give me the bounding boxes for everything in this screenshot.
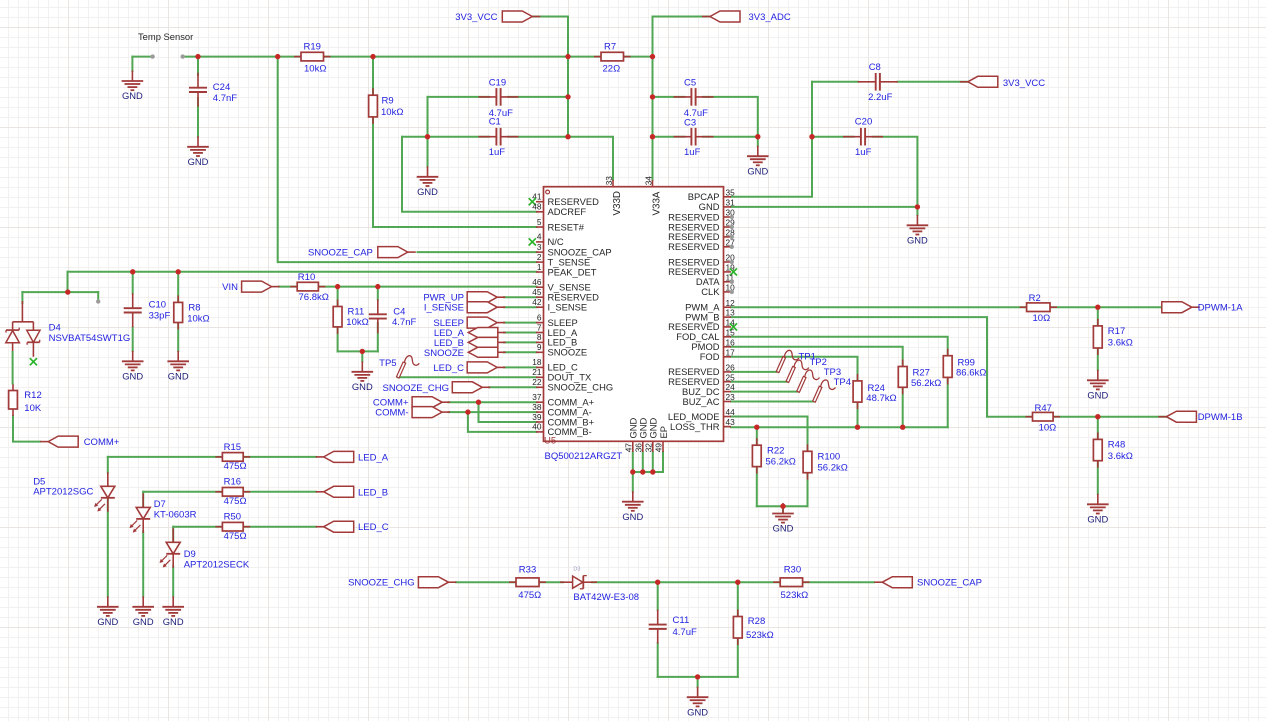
U5 pin 20 RESERVED — [668, 253, 735, 268]
svg-text:SNOOZE_CHG: SNOOZE_CHG — [382, 383, 449, 394]
U5 pin 19 RESERVED — [668, 263, 737, 278]
resistor R100 — [803, 444, 848, 479]
ground R11/C4 — [352, 361, 374, 392]
pin 1 indicator — [546, 190, 550, 194]
svg-text:5: 5 — [537, 217, 542, 227]
svg-text:1uF: 1uF — [684, 147, 701, 158]
junction R8 top — [176, 269, 181, 274]
junction C20 left — [809, 134, 814, 139]
resistor R30 — [773, 565, 809, 601]
net flag SNOOZE_CAP right — [882, 577, 912, 588]
junction C4 top — [375, 284, 380, 289]
svg-text:33pF: 33pF — [149, 311, 171, 322]
svg-text:C20: C20 — [855, 116, 872, 127]
junction R7/3V3_ADC — [650, 54, 655, 59]
ground Temp Sensor — [122, 71, 144, 102]
svg-text:1uF: 1uF — [489, 147, 506, 158]
wire to R30 — [738, 581, 780, 583]
svg-text:1uF: 1uF — [855, 147, 872, 158]
wire down to ground — [131, 57, 133, 71]
svg-text:10Ω: 10Ω — [1039, 422, 1057, 433]
wire C10 bottom to ground — [132, 328, 134, 352]
wire 3V3_ADC to V33A pin 34 — [653, 17, 711, 180]
wire R48 bottom to ground — [1097, 461, 1099, 494]
svg-text:APT2012SECK: APT2012SECK — [184, 559, 250, 570]
svg-text:GND: GND — [188, 156, 209, 167]
resistor R8 — [174, 295, 210, 329]
svg-text:LED_B: LED_B — [358, 487, 388, 498]
svg-text:48.7kΩ: 48.7kΩ — [866, 393, 896, 404]
svg-text:SNOOZE_CAP: SNOOZE_CAP — [308, 248, 373, 259]
svg-text:21: 21 — [532, 367, 542, 377]
wire to ground under C4 — [361, 351, 363, 361]
svg-text:R15: R15 — [224, 442, 241, 453]
net flag COMM+ left — [48, 436, 78, 447]
svg-text:3: 3 — [537, 242, 542, 252]
svg-text:LED_C: LED_C — [433, 363, 464, 374]
wire D4 to R12 — [12, 352, 14, 384]
wire C4 top — [377, 287, 379, 300]
wire C11 bottom — [657, 643, 659, 677]
svg-text:475Ω: 475Ω — [224, 461, 247, 472]
svg-text:56.2kΩ: 56.2kΩ — [818, 463, 848, 474]
ground R17 — [1087, 370, 1109, 401]
wire I_SENSE pin 42 — [504, 306, 537, 308]
wire R2 to DPWM-1A — [1050, 306, 1163, 308]
wire R22 bottom — [756, 467, 758, 507]
wire C24 top — [197, 57, 199, 75]
wire SNOOZE_CHG pin 22 — [489, 386, 537, 388]
svg-text:GND: GND — [122, 90, 143, 101]
svg-text:40: 40 — [532, 422, 542, 432]
wire C3 right — [703, 136, 758, 138]
wire C19 right — [508, 96, 568, 98]
svg-text:R16: R16 — [224, 477, 241, 488]
svg-text:APT2012SGC: APT2012SGC — [33, 486, 93, 497]
svg-text:R47: R47 — [1035, 403, 1052, 414]
svg-text:GND: GND — [1087, 514, 1108, 525]
resistor R10 — [290, 272, 329, 303]
wire R16 to LED_B flag — [243, 491, 316, 493]
svg-text:SNOOZE_CHG: SNOOZE_CHG — [548, 382, 614, 393]
svg-text:COMM+: COMM+ — [84, 437, 120, 448]
svg-text:76.8kΩ: 76.8kΩ — [299, 292, 329, 303]
U5 pin 27 RESERVED — [668, 237, 735, 252]
wire C19 left corner down — [427, 97, 429, 137]
svg-text:R33: R33 — [519, 565, 536, 576]
net flag SNOOZE — [468, 347, 498, 357]
LED D5 — [33, 472, 115, 512]
net flag LED_A — [468, 328, 498, 338]
wire T_SENSE to pin 2 — [278, 57, 537, 263]
wire SNOOZE_CHG to R33 — [456, 581, 516, 583]
ground D5 — [97, 596, 119, 627]
U5 pin 42 I_SENSE — [532, 297, 587, 313]
wire 3V3_VCC row — [324, 56, 602, 58]
wire C11 top — [657, 582, 659, 610]
wire R8 top — [177, 272, 179, 303]
wire R17 bottom to ground — [1097, 348, 1099, 370]
wire to ground under IC — [632, 472, 634, 492]
wire C3 ground stub — [757, 137, 759, 146]
wire SNOOZE_CAP pin 3 — [418, 251, 537, 253]
svg-text:C10: C10 — [149, 299, 166, 310]
net flag 3V3_ADC — [710, 11, 740, 22]
ground C1/C19 — [417, 166, 439, 197]
resistor R7 — [594, 41, 631, 74]
svg-text:BAT42W-E3-08: BAT42W-E3-08 — [573, 592, 639, 603]
wire LED_C pin 18 — [504, 366, 537, 368]
U5 pin 30 RESERVED — [668, 208, 735, 223]
wire R100 bottom — [807, 473, 809, 507]
wire R28 top — [737, 582, 739, 616]
U5 pin 41 RESERVED — [529, 192, 599, 208]
net flag LED_C — [324, 521, 354, 532]
svg-text:48: 48 — [532, 202, 542, 212]
svg-text:22: 22 — [532, 377, 542, 387]
svg-text:C5: C5 — [684, 78, 696, 89]
net flag SNOOZE_CHG bottom — [418, 577, 448, 588]
svg-text:4.7uF: 4.7uF — [673, 627, 697, 638]
U5 pin 11 DATA — [696, 272, 735, 287]
wire R12 to COMM+ flag — [13, 416, 40, 442]
svg-text:Temp Sensor: Temp Sensor — [138, 31, 193, 42]
svg-text:10Ω: 10Ω — [1033, 313, 1051, 324]
svg-text:R8: R8 — [188, 303, 200, 314]
test point TP3 — [797, 367, 841, 392]
svg-text:SNOOZE: SNOOZE — [548, 347, 588, 358]
net flag VIN — [242, 281, 272, 292]
U5 pin 24 BUZ_DC — [682, 382, 735, 397]
resistor R24 — [853, 374, 897, 409]
svg-text:10kΩ: 10kΩ — [381, 107, 403, 118]
U5 pin 43 LOSS_THR — [670, 417, 735, 432]
wire C4 bottom — [377, 323, 379, 351]
junction COMM_A+/B+ — [476, 400, 481, 405]
U5 pin 12 PWM_A — [685, 298, 735, 313]
wire C20 left — [812, 136, 853, 138]
capacitor C3 — [674, 118, 714, 158]
svg-text:R22: R22 — [767, 446, 784, 457]
U5 pin 5 RESET# — [536, 217, 585, 233]
svg-text:42: 42 — [532, 297, 542, 307]
net flag 3V3_VCC — [502, 11, 532, 22]
wire PWM_B to R47 — [731, 317, 1033, 417]
U5 pin 46 V_SENSE — [532, 277, 590, 293]
U5 pin 29 RESERVED — [668, 218, 735, 233]
svg-text:ADCREF: ADCREF — [548, 206, 587, 217]
LED D7 — [130, 493, 166, 533]
svg-text:I_SENSE: I_SENSE — [424, 303, 464, 314]
svg-text:GND: GND — [773, 523, 794, 534]
svg-text:56.2kΩ: 56.2kΩ — [911, 378, 941, 389]
U5 pin 36 GND bottom — [633, 417, 648, 452]
junction C1 right — [565, 134, 570, 139]
wire R9 top — [372, 57, 374, 96]
svg-text:46: 46 — [532, 277, 542, 287]
wire C10 top — [132, 272, 134, 294]
U5 pin 39 COMM_B+ — [532, 412, 594, 428]
open end stub D4 node — [96, 299, 100, 303]
wire R7 to 3V3_ADC column — [624, 56, 653, 58]
svg-text:10kΩ: 10kΩ — [304, 64, 326, 75]
wire C5 right corner — [703, 97, 758, 137]
svg-text:4.7nF: 4.7nF — [392, 317, 416, 328]
svg-text:KT-0603R: KT-0603R — [154, 509, 197, 520]
junction T_SENSE drop — [275, 54, 280, 59]
svg-text:PEAK_DET: PEAK_DET — [548, 266, 597, 277]
no-connect D4 cathode — [30, 358, 37, 365]
svg-text:32: 32 — [643, 443, 653, 453]
ground D9 — [162, 596, 184, 627]
capacitor C4 — [369, 299, 417, 333]
svg-text:13: 13 — [726, 308, 736, 318]
svg-text:R50: R50 — [224, 512, 241, 523]
wire D7 cathode to ground — [142, 532, 144, 597]
capacitor C19 — [479, 78, 519, 119]
wire D7 to R16 — [143, 491, 222, 493]
resistor R17 — [1093, 319, 1132, 355]
U5 pin 49 EP bottom — [654, 426, 669, 452]
wire C8 right to 3V3_VCC flag — [898, 81, 968, 83]
svg-text:C24: C24 — [213, 82, 230, 93]
svg-text:475Ω: 475Ω — [224, 531, 247, 542]
svg-text:8: 8 — [537, 332, 542, 342]
wire Temp Sensor to GND stub — [132, 56, 152, 58]
svg-text:3V3_VCC: 3V3_VCC — [1003, 78, 1045, 89]
svg-text:3V3_ADC: 3V3_ADC — [749, 12, 791, 23]
svg-text:V33D: V33D — [612, 191, 623, 216]
junction R9 top — [370, 54, 375, 59]
wire ground stub C11 — [697, 677, 699, 687]
wire D5 anode — [107, 457, 109, 473]
resistor R2 — [1020, 293, 1057, 324]
U5 pin 47 GND bottom — [623, 417, 638, 452]
svg-text:6: 6 — [537, 312, 542, 322]
svg-text:GND: GND — [417, 186, 438, 197]
wire pin 36 down — [642, 452, 644, 472]
U5 pin 40 COMM_B- — [532, 422, 592, 438]
U5 pin 1 PEAK_DET — [536, 262, 597, 278]
wire C24 bottom to ground — [197, 98, 199, 136]
svg-text:GND: GND — [97, 616, 118, 627]
U5 pin 9 SNOOZE — [536, 342, 587, 358]
svg-text:10K: 10K — [24, 403, 42, 414]
wire COMM_B+ pin 39 — [479, 402, 537, 422]
wire R15 to LED_A flag — [243, 456, 316, 458]
wire LED_A pin 7 — [504, 332, 537, 334]
resistor R22 — [752, 438, 795, 473]
svg-text:R9: R9 — [382, 96, 394, 107]
junction C3 left — [650, 134, 655, 139]
wire C20 right to ground — [873, 137, 918, 215]
wire ADCREF pin 48 — [402, 137, 537, 212]
junction C11/R28 gnd — [695, 674, 700, 679]
svg-text:R48: R48 — [1108, 440, 1125, 451]
wire D9 cathode to ground — [172, 567, 174, 597]
wire LOSS_THR row — [731, 426, 948, 428]
wire C8 left — [812, 81, 858, 83]
capacitor C20 — [843, 116, 883, 158]
svg-text:NSVBAT54SWT1G: NSVBAT54SWT1G — [49, 333, 131, 344]
wire R17 top — [1097, 307, 1099, 326]
wire R11 top — [337, 287, 339, 307]
wire C19 left — [428, 96, 490, 98]
capacitor C1 — [479, 117, 519, 158]
svg-text:R28: R28 — [748, 616, 765, 627]
svg-text:LED_A: LED_A — [358, 452, 389, 463]
wire FOD_CAL to R99 — [731, 337, 948, 356]
svg-text:D9: D9 — [184, 549, 196, 560]
net flag 3V3_VCC right — [968, 76, 998, 87]
junction R27 bottom — [900, 425, 905, 430]
resistor R11 — [333, 300, 369, 334]
net flag DPWM-1A — [1162, 302, 1192, 313]
junction COMM_A-/B- — [465, 409, 470, 414]
capacitor C8 — [858, 62, 898, 103]
wire PWR_UP pin 45 — [504, 296, 537, 298]
wire R8 bottom to ground — [177, 323, 179, 352]
svg-text:RESERVED: RESERVED — [668, 241, 720, 252]
diode D3 — [560, 566, 639, 603]
svg-text:2.2uF: 2.2uF — [868, 92, 892, 103]
wire PEAK_DET pin 1 — [68, 271, 537, 273]
svg-text:C1: C1 — [489, 117, 501, 128]
wire open stub — [97, 292, 99, 300]
wire R47 to DPWM-1B — [1053, 416, 1166, 418]
junction GND pin31 — [915, 204, 920, 209]
svg-text:BUZ_AC: BUZ_AC — [683, 396, 720, 407]
wire C5 left — [653, 96, 685, 98]
wire R22 top — [756, 427, 758, 445]
ground R48 — [1087, 494, 1109, 525]
ground C20/pin31 — [907, 215, 929, 246]
junction R22/R100 gnd — [780, 504, 785, 509]
U5 pin 22 SNOOZE_CHG — [532, 377, 613, 393]
svg-text:DPWM-1A: DPWM-1A — [1198, 303, 1244, 314]
svg-text:C19: C19 — [489, 78, 506, 89]
wire R11-C4 join — [338, 350, 378, 352]
IC U5 BQ500212ARGZT body — [544, 187, 724, 442]
svg-text:22Ω: 22Ω — [603, 64, 621, 75]
wire R28 bottom — [737, 638, 739, 677]
wire R30 to SNOOZE_CAP flag — [803, 581, 874, 583]
resistor R48 — [1093, 432, 1132, 467]
U5 pin 23 BUZ_AC — [683, 392, 736, 407]
svg-text:23: 23 — [726, 392, 736, 402]
svg-text:34: 34 — [643, 176, 653, 186]
wire PEAK_DET down left — [67, 272, 69, 292]
svg-text:U5: U5 — [544, 436, 556, 447]
svg-text:2: 2 — [537, 252, 542, 262]
svg-text:R12: R12 — [24, 390, 41, 401]
svg-text:C11: C11 — [673, 615, 690, 626]
junction D4 node — [65, 289, 70, 294]
svg-text:24: 24 — [726, 382, 736, 392]
wire DOUT_TX to TP5 — [398, 376, 537, 378]
wire pin 26 to TP1 — [731, 371, 778, 373]
svg-text:GND: GND — [352, 381, 373, 392]
capacitor C10 — [124, 293, 171, 327]
svg-text:523kΩ: 523kΩ — [781, 590, 809, 601]
wire to ground under C1 — [427, 137, 429, 167]
resistor R16 — [215, 477, 250, 507]
U5 pin 35 BPCAP — [688, 187, 735, 202]
junction R28 top — [735, 580, 740, 585]
svg-text:EP: EP — [658, 426, 669, 439]
ground R8 — [167, 351, 189, 382]
svg-text:VIN: VIN — [222, 282, 238, 293]
junction pin36 — [640, 469, 645, 474]
junction R24 bottom — [855, 425, 860, 430]
svg-text:36: 36 — [633, 443, 643, 453]
junction R11/C4 gnd — [360, 349, 365, 354]
svg-text:12: 12 — [726, 298, 736, 308]
svg-text:47: 47 — [623, 443, 633, 453]
wire R99 bottom — [947, 377, 949, 427]
svg-text:GND: GND — [622, 511, 643, 522]
U5 pin 2 T_SENSE — [536, 252, 590, 268]
svg-text:GND: GND — [747, 165, 768, 176]
svg-text:C3: C3 — [684, 118, 696, 129]
svg-text:10kΩ: 10kΩ — [187, 313, 209, 324]
svg-text:LOSS_THR: LOSS_THR — [670, 421, 720, 432]
wire SNOOZE pin 9 — [504, 351, 537, 353]
svg-text:COMM-: COMM- — [375, 408, 408, 419]
net flag SNOOZE_CAP left — [378, 247, 408, 258]
svg-text:86.6kΩ: 86.6kΩ — [956, 367, 986, 378]
svg-text:26: 26 — [726, 363, 736, 373]
junction C1 left — [425, 134, 430, 139]
svg-text:18: 18 — [532, 357, 542, 367]
svg-text:DPWM-1B: DPWM-1B — [1198, 412, 1243, 423]
wire pin 25 to TP2 — [731, 381, 787, 383]
wire PMOD to R27 — [731, 347, 903, 367]
svg-text:D7: D7 — [154, 499, 166, 510]
resistor R12 — [9, 384, 42, 417]
svg-text:R27: R27 — [913, 367, 930, 378]
svg-text:SNOOZE_CAP: SNOOZE_CAP — [917, 578, 982, 589]
svg-text:16: 16 — [726, 337, 736, 347]
net flag I_SENSE — [467, 302, 497, 313]
svg-text:GND: GND — [168, 371, 189, 382]
resistor R28 — [733, 610, 773, 646]
wire 3V3_VCC flag down — [532, 17, 568, 137]
wire C11-R28 join — [658, 676, 738, 678]
wire C3 left — [653, 136, 685, 138]
resistor R15 — [215, 442, 250, 472]
U5 pin 48 ADCREF — [532, 202, 586, 218]
wire FOD to R24 — [731, 357, 858, 381]
svg-text:CLK: CLK — [701, 286, 720, 297]
svg-text:BQ500212ARGZT: BQ500212ARGZT — [545, 451, 623, 462]
svg-text:R10: R10 — [298, 272, 315, 283]
wire D7 anode — [142, 492, 144, 508]
svg-text:COMM_B-: COMM_B- — [548, 426, 592, 437]
ground C24 — [187, 136, 209, 167]
svg-text:475Ω: 475Ω — [224, 496, 247, 507]
wire ground bus — [633, 471, 663, 473]
LED D9 — [160, 528, 196, 568]
ground R22/R100 — [772, 503, 794, 534]
svg-text:GND: GND — [687, 706, 708, 717]
svg-text:17: 17 — [726, 347, 736, 357]
svg-text:56.2kΩ: 56.2kΩ — [766, 456, 796, 467]
svg-text:R2: R2 — [1029, 293, 1041, 304]
open end Temp Sensor left — [150, 54, 154, 58]
wire V_SENSE pin 46 — [318, 286, 536, 288]
wire D5 cathode to ground — [107, 497, 109, 597]
